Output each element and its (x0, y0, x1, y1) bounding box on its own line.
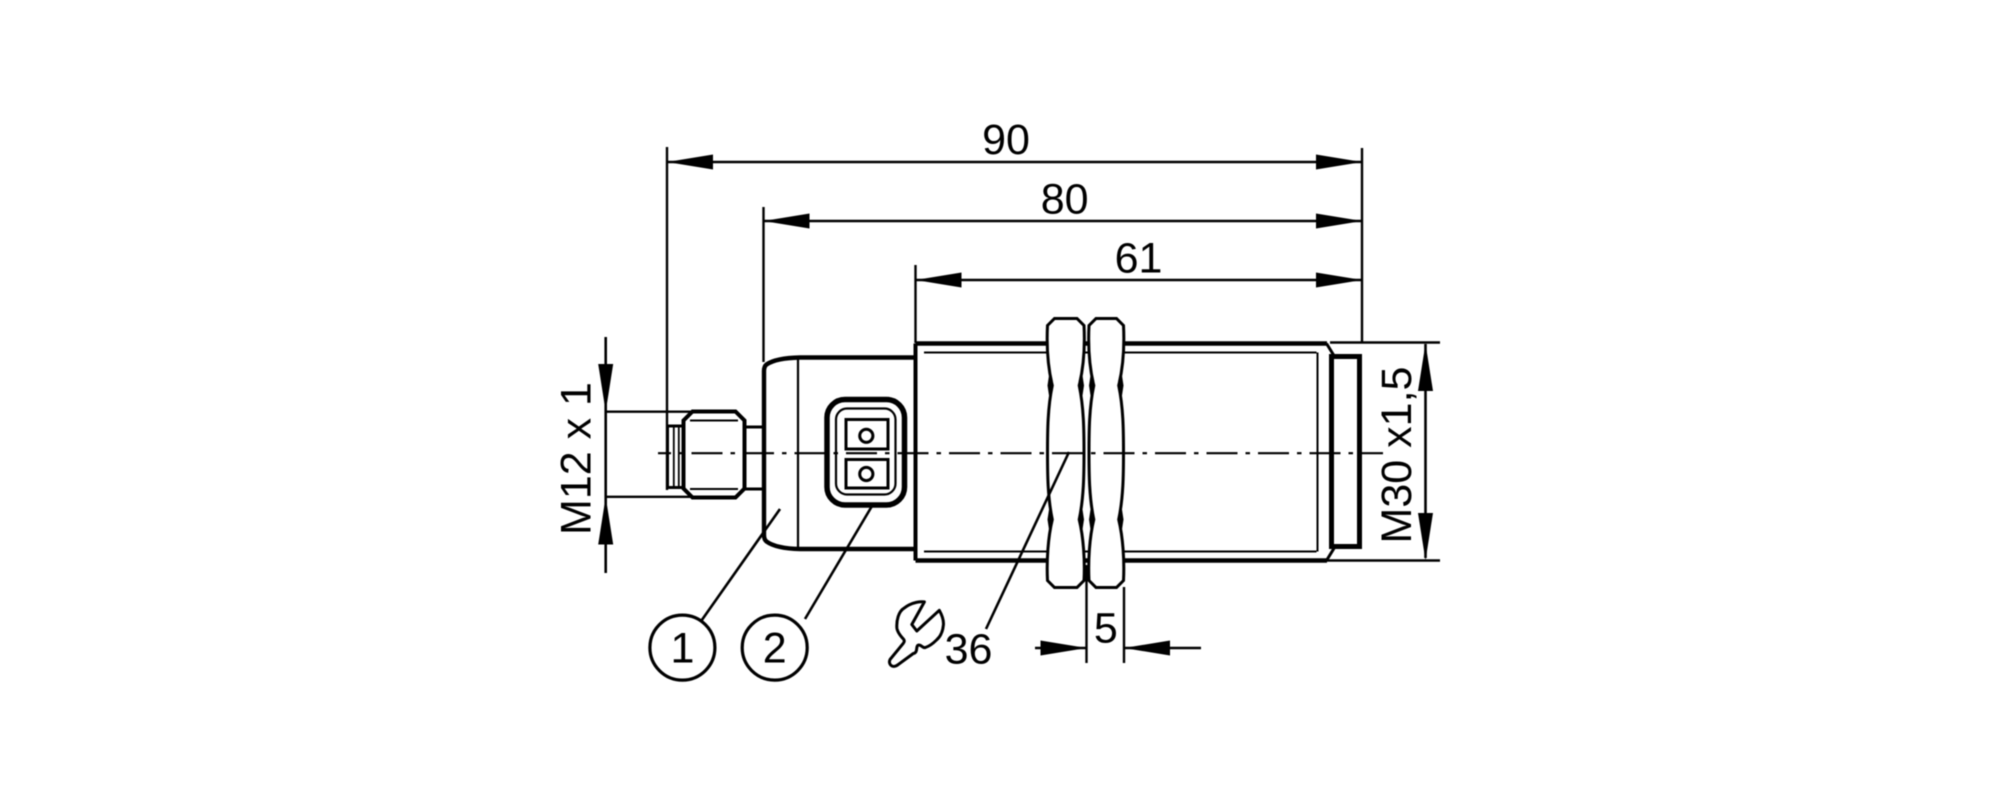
leader line 36 (986, 452, 1069, 629)
dimension 5 line right (1124, 647, 1201, 650)
M12 connector thread line 2 (678, 427, 680, 487)
dimension 90 line (667, 161, 1362, 164)
M30 dimension vertical line (1424, 344, 1427, 558)
extension line left (90) (666, 147, 668, 490)
housing inner vertical line (797, 358, 799, 549)
dimension 5 arrow right (pointing left) (1124, 641, 1170, 656)
M12 connector thread tip (668, 426, 684, 488)
M12 neck top edge (745, 426, 764, 429)
barrel thread line top (924, 352, 1317, 354)
dimension 80 arrow right (1316, 214, 1362, 229)
svg-text:61: 61 (1115, 235, 1163, 283)
svg-text:90: 90 (982, 116, 1030, 164)
M12 connector thread line 1 (673, 427, 675, 487)
hex nut right (1089, 319, 1124, 588)
barrel top edge (916, 341, 1328, 346)
dimension 80 line (764, 220, 1363, 223)
end cap chamfer bottom (1327, 548, 1335, 561)
M12 neck bottom edge (745, 488, 764, 491)
dimension 61 line (916, 279, 1363, 282)
M12 coupling nut (684, 412, 745, 498)
LED circle upper (860, 429, 873, 442)
dimension 61 arrow left (916, 273, 962, 288)
M12 dimension vertical line (604, 337, 607, 573)
leader line 2 (805, 506, 872, 619)
extension line right end (1361, 148, 1363, 343)
svg-text:M12 x 1: M12 x 1 (552, 382, 600, 535)
LED square lower (846, 460, 888, 489)
M12 top arrow (pointing down) (598, 364, 613, 412)
M30 extension line bottom (1320, 559, 1440, 561)
M30 extension line top (1330, 341, 1440, 343)
leader line 1 (702, 509, 781, 621)
thread runout line (1317, 353, 1319, 552)
LED square upper (846, 420, 888, 450)
dimension 5 ext line left (1085, 565, 1087, 663)
M12 bottom arrow (pointing up) (598, 497, 613, 545)
callout circle 1 (650, 615, 715, 680)
M12 coupling nut chamfer line top (690, 420, 738, 422)
svg-text:M30 x1,5: M30 x1,5 (1373, 367, 1421, 544)
M30 top arrow (pointing up) (1418, 344, 1433, 392)
dimension 90 arrow left (667, 155, 713, 170)
dimension 5 line left (1035, 647, 1087, 650)
barrel thread line bottom (924, 551, 1317, 553)
housing outline (764, 358, 916, 550)
M12 coupling nut chamfer line bottom (690, 488, 738, 490)
dimension 90 arrow right (1316, 155, 1362, 170)
centerline (658, 452, 1383, 454)
svg-text:80: 80 (1041, 176, 1089, 224)
extension line left (80) (762, 207, 764, 362)
M30 bottom arrow (pointing down) (1418, 513, 1433, 561)
nut facet cusp diamonds (1048, 370, 1053, 402)
wrench icon (889, 602, 943, 667)
M12 extension line bottom (606, 496, 737, 498)
extension line left (61) (914, 265, 916, 343)
dimension 5 arrow left (pointing right) (1041, 641, 1087, 656)
housing right edge (914, 344, 918, 561)
svg-text:36: 36 (945, 626, 993, 674)
LED window outer frame (827, 400, 905, 506)
M12 extension line top (606, 411, 695, 413)
end cap chamfer top (1327, 344, 1335, 357)
LED window inner frame (836, 409, 896, 495)
svg-text:2: 2 (763, 625, 787, 673)
callout circle 2 (742, 615, 807, 680)
dimension 5 ext line right (1123, 587, 1125, 663)
barrel bottom edge (916, 558, 1328, 563)
hex nut left (1047, 319, 1084, 588)
dimension 61 arrow right (1316, 273, 1362, 288)
svg-text:1: 1 (670, 625, 694, 673)
svg-text:5: 5 (1094, 605, 1118, 653)
end cap body (1332, 357, 1360, 547)
LED circle lower (860, 467, 873, 480)
dimension 80 arrow left (764, 214, 810, 229)
